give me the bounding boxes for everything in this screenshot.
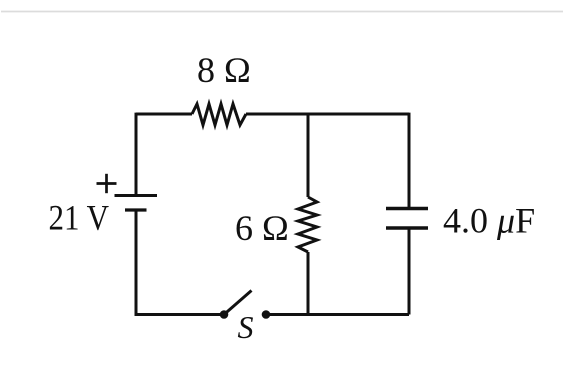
- switch S left contact dot: [220, 310, 229, 319]
- svg-text:21 V: 21 V: [49, 198, 110, 238]
- wire: middle branch top: [307, 114, 310, 197]
- battery V1 long plate (+): [115, 194, 158, 197]
- resistor R1 8-ohm (horizontal zigzag): [192, 104, 246, 125]
- switch S right contact dot: [262, 310, 271, 319]
- wire: left side, top-left corner down to battery: [135, 113, 138, 195]
- wire: switch to bottom-right corner: [266, 313, 409, 316]
- plus sign of battery: [97, 182, 117, 185]
- wire: right branch top: [408, 113, 411, 209]
- svg-text:6 Ω: 6 Ω: [235, 208, 289, 248]
- resistor R2 6-ohm (vertical zigzag): [298, 197, 317, 252]
- switch S arm: [224, 291, 252, 315]
- wire: middle branch bottom: [307, 252, 310, 315]
- top gray divider line: [1, 11, 563, 13]
- svg-text:S: S: [238, 309, 254, 345]
- wire: top-left to resistor R1: [136, 113, 192, 116]
- svg-text:8 Ω: 8 Ω: [197, 50, 251, 90]
- capacitor C1 top plate: [386, 207, 428, 210]
- wire: battery down to bottom-left corner: [136, 210, 224, 315]
- svg-text:4.0 μF: 4.0 μF: [443, 201, 535, 241]
- battery V1 short plate (-): [125, 208, 147, 211]
- capacitor C1 bottom plate: [386, 226, 428, 229]
- wire: resistor R1 to top-right corner: [246, 113, 409, 116]
- wire: right branch bottom: [408, 228, 411, 315]
